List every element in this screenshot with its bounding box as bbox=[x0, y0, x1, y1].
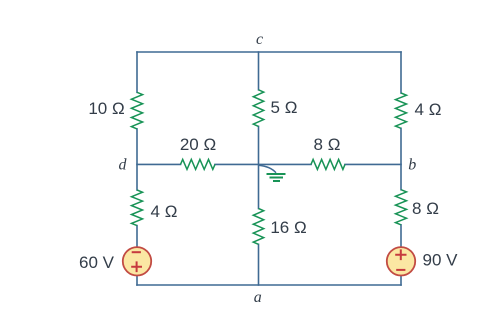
svg-text:60 V: 60 V bbox=[79, 253, 115, 272]
resistor 4 ohm (left lower) bbox=[132, 190, 143, 226]
svg-text:4 Ω: 4 Ω bbox=[415, 100, 442, 119]
svg-text:10 Ω: 10 Ω bbox=[88, 99, 124, 118]
wire right bottom segment (90V to corner) bbox=[400, 276, 402, 285]
wire right segment (8ohm to 90V source) bbox=[400, 225, 402, 247]
wire center bottom segment (16ohm to a) bbox=[258, 244, 260, 285]
wire bottom a rail bbox=[137, 284, 401, 286]
wire right segment (4ohm to node b to 8ohm) bbox=[400, 128, 402, 189]
svg-text:16 Ω: 16 Ω bbox=[270, 218, 306, 237]
resistor 10 ohm (left top) bbox=[131, 92, 142, 129]
voltage source 90 V bbox=[387, 247, 415, 275]
ground symbol bbox=[267, 174, 286, 181]
svg-text:8 Ω: 8 Ω bbox=[314, 135, 341, 154]
wire center segment (5ohm through junction to 16ohm) bbox=[258, 126, 260, 208]
wire left segment (4ohm to 60V source) bbox=[136, 226, 138, 248]
wire left top segment (c to 10ohm) bbox=[136, 52, 138, 92]
svg-text:90 V: 90 V bbox=[423, 251, 459, 270]
wire left bottom segment (60V to corner) bbox=[136, 275, 138, 285]
svg-text:b: b bbox=[408, 157, 416, 174]
wire middle d to 20ohm bbox=[137, 163, 181, 165]
resistor 4 ohm (right top) bbox=[396, 93, 407, 128]
wire middle 20ohm to 8ohm bbox=[215, 163, 311, 165]
resistor 5 ohm (center top) bbox=[253, 90, 263, 127]
svg-text:8 Ω: 8 Ω bbox=[412, 199, 439, 218]
resistor 16 ohm (center lower) bbox=[253, 209, 263, 245]
voltage source 60 V bbox=[123, 247, 151, 275]
wire center top segment (c to 5ohm) bbox=[258, 52, 260, 90]
resistor 8 ohm (middle horizontal right) bbox=[311, 159, 345, 169]
svg-text:d: d bbox=[119, 157, 128, 174]
svg-text:5 Ω: 5 Ω bbox=[271, 98, 298, 117]
wire left segment (10ohm to node d to 4ohm) bbox=[136, 129, 138, 190]
svg-text:a: a bbox=[254, 289, 262, 306]
resistor 20 ohm (middle horizontal left) bbox=[181, 159, 216, 169]
wire middle 8ohm to node b bbox=[345, 163, 401, 165]
svg-text:c: c bbox=[256, 31, 263, 48]
ground arc from center junction bbox=[259, 165, 277, 173]
resistor 8 ohm (right lower) bbox=[396, 190, 407, 225]
wire right top segment (c to 4ohm) bbox=[400, 52, 402, 93]
svg-text:4 Ω: 4 Ω bbox=[151, 202, 178, 221]
svg-text:20 Ω: 20 Ω bbox=[180, 135, 216, 154]
wire top c rail bbox=[137, 51, 401, 53]
